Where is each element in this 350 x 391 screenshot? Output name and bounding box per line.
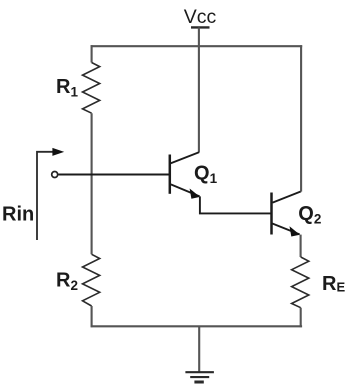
transistor Q1 (170, 152, 200, 199)
transistor Q2 (272, 191, 302, 236)
wire: top rail (91, 45, 303, 47)
resistor RE (292, 257, 309, 308)
wire: Vcc stem down to Q1 collector corner (198, 27, 200, 152)
svg-text:Rin: Rin (2, 204, 34, 226)
ground stem wire (198, 326, 200, 372)
resistor R1 (83, 63, 100, 114)
svg-text:Q2: Q2 (298, 203, 321, 227)
wire: RE bottom lead to bottom rail (300, 308, 302, 328)
wire: Q2 collector up to top rail (300, 45, 302, 191)
wire: bottom rail (91, 325, 303, 327)
svg-text:Vcc: Vcc (184, 6, 217, 28)
Rin measurement arrow (37, 152, 55, 240)
wire: Q2 emitter down to RE (300, 235, 302, 257)
resistor R2 (83, 254, 100, 306)
wire: left rail bottom lead (91, 306, 93, 327)
wire: Q1 emitter down and over to Q2 base (200, 196, 271, 213)
svg-text:Q1: Q1 (194, 163, 218, 187)
Vcc power symbol bar (191, 26, 210, 28)
ground symbol (185, 372, 214, 382)
wire: left rail top lead into R1 (91, 45, 93, 62)
node: input terminal open circle (52, 172, 58, 178)
wire: left rail middle segment (91, 113, 93, 254)
wire: input terminal to Q1 base (59, 174, 170, 176)
svg-text:R2: R2 (56, 270, 78, 294)
svg-text:RE: RE (322, 273, 345, 295)
svg-text:R1: R1 (56, 76, 78, 100)
